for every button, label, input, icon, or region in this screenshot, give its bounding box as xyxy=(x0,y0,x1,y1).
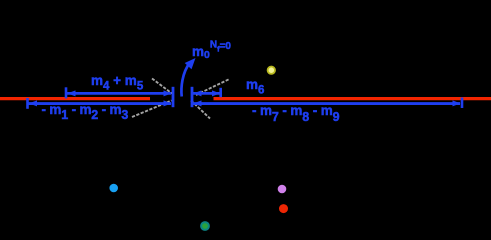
node end bar x27 xyxy=(26,98,29,109)
node cyan dot xyxy=(109,184,118,193)
arrowhead LL-right xyxy=(164,100,172,106)
wire dimension line -m7-m8-m9 xyxy=(193,102,460,105)
curved arrow to m0 xyxy=(181,63,190,97)
arrowhead LR-right xyxy=(453,100,461,106)
node red dot xyxy=(279,204,288,213)
wire red axis left segment xyxy=(0,97,150,100)
wire dimension line m4+m5 xyxy=(67,92,171,95)
node tall bar right xyxy=(191,87,194,107)
arrowhead UL-right xyxy=(164,90,172,96)
arrowhead m0 xyxy=(185,58,196,69)
arrowhead UR-right xyxy=(212,90,220,96)
node end bar x221 xyxy=(219,88,222,97)
wire red axis right segment xyxy=(214,97,491,100)
gray ray lower-right xyxy=(191,101,210,119)
node teal dot xyxy=(200,221,210,231)
arrowhead LL-left xyxy=(29,100,37,106)
gray ray upper-right xyxy=(196,79,230,95)
gray ray upper-left xyxy=(152,79,172,94)
node end bar x66 xyxy=(65,87,68,98)
node orchid dot xyxy=(278,185,287,194)
arrowhead UR-left xyxy=(194,90,202,96)
arrowhead LR-left xyxy=(194,100,202,106)
node tall bar left xyxy=(172,87,175,107)
node end bar x462 xyxy=(461,98,464,109)
gray ray lower-left xyxy=(132,101,172,118)
wire dimension line -m1-m2-m3 xyxy=(29,102,172,105)
arrowhead UL-left xyxy=(68,90,76,96)
node yellow dot xyxy=(267,66,276,75)
wire dimension line m6 xyxy=(193,92,220,95)
